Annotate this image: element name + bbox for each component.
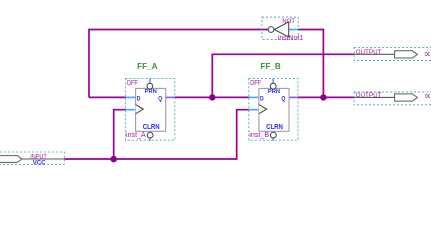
svg-text:DFF: DFF <box>127 80 138 87</box>
svg-text:NOT: NOT <box>282 18 295 25</box>
svg-text:Q: Q <box>282 95 286 102</box>
svg-text:CLRN: CLRN <box>266 124 283 131</box>
svg-text:instNot1: instNot1 <box>278 35 303 42</box>
svg-text:CLRN: CLRN <box>143 124 160 131</box>
svg-text:PRN: PRN <box>145 89 157 95</box>
svg-text:∝: ∝ <box>424 91 431 102</box>
svg-text:DFF: DFF <box>250 80 261 87</box>
svg-text:PRN: PRN <box>268 89 280 95</box>
svg-text:∝: ∝ <box>424 49 431 60</box>
svg-text:OUTPUT: OUTPUT <box>356 92 382 99</box>
svg-text:D: D <box>137 95 141 102</box>
svg-text:FF_A: FF_A <box>137 62 158 71</box>
svg-text:inst_B: inst_B <box>249 132 269 139</box>
svg-text:Q: Q <box>158 95 162 102</box>
svg-text:VCC: VCC <box>33 159 46 166</box>
svg-text:FF_B: FF_B <box>261 62 282 71</box>
svg-text:OUTPUT: OUTPUT <box>356 49 382 56</box>
svg-text:D: D <box>260 95 264 102</box>
svg-text:inst_A: inst_A <box>126 132 146 139</box>
